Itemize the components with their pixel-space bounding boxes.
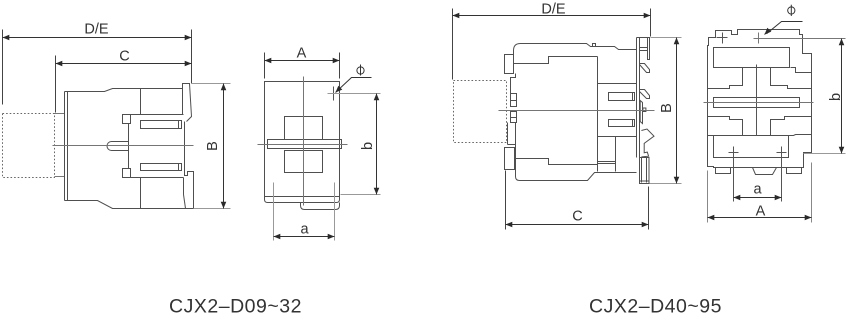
- dim C extension right: [648, 187, 650, 230]
- back plate double vertical: [637, 38, 640, 158]
- vertical center line: [756, 65, 758, 136]
- dim line D/E: [453, 15, 651, 17]
- top hole cross right + b top extension: [754, 33, 846, 44]
- terminal block top edge: [131, 114, 184, 116]
- lower terminal slot: [141, 164, 182, 171]
- upper inner square: [285, 117, 323, 140]
- middle band: [268, 140, 342, 149]
- dim line C: [506, 224, 649, 226]
- dim b extension top / hole tick: [328, 93, 381, 95]
- dim A extension right: [811, 163, 813, 223]
- bottom pad right: [787, 168, 802, 174]
- internal vertical lower: [140, 178, 142, 209]
- clip bottom inner lines: [640, 158, 650, 183]
- upper left staircase: [708, 68, 743, 89]
- dotted accessory module rectangle: [454, 81, 507, 143]
- upper right staircase: [771, 68, 812, 89]
- dim a extension left: [273, 183, 275, 241]
- upper slot divider: [178, 121, 180, 129]
- svg-text:A: A: [756, 204, 766, 220]
- outer body rectangle: [265, 82, 340, 203]
- top bump: [593, 44, 596, 47]
- DIN clip crossbar: [640, 48, 648, 51]
- svg-text:B: B: [659, 103, 675, 113]
- hook 1: [640, 64, 650, 73]
- slot 1 divider: [632, 93, 634, 101]
- top cap block: [505, 55, 514, 74]
- tick top dotted-to-body: [55, 113, 65, 115]
- inner bottom line: [265, 196, 340, 198]
- right edge mid: [184, 122, 186, 172]
- dim C extension left: [505, 171, 507, 230]
- top band rectangle: [714, 48, 790, 68]
- svg-text:b: b: [828, 93, 844, 101]
- terminal slot 1: [609, 93, 635, 101]
- rect B midline: [511, 100, 517, 102]
- DIN clip bottom body: [640, 158, 650, 184]
- svg-text:D/E: D/E: [84, 22, 109, 38]
- rect C midline: [511, 117, 517, 119]
- dim b extension bottom: [341, 194, 381, 196]
- svg-text:a: a: [300, 222, 309, 238]
- dim D/E extension right: [650, 9, 652, 37]
- dim line b: [841, 39, 843, 154]
- dim line a: [734, 197, 782, 199]
- bottom pad left: [716, 168, 731, 174]
- terminal block top edge: [598, 83, 637, 85]
- lower right staircase: [771, 117, 812, 136]
- top hole cross left: [717, 33, 728, 44]
- dim line A: [708, 217, 812, 219]
- bottom right flange: [185, 172, 194, 209]
- center pin (bullet): [107, 142, 129, 151]
- terminal slot 2: [609, 120, 635, 127]
- center line horizontal: [499, 110, 655, 112]
- label phi: [788, 5, 795, 16]
- svg-text:a: a: [753, 182, 762, 198]
- DIN clip top bar: [648, 38, 650, 60]
- left mounting strip (double line): [65, 92, 68, 201]
- body bottom edge with chamfer: [65, 201, 194, 209]
- phi leader: [767, 22, 803, 34]
- svg-text:CJX2–D40~95: CJX2–D40~95: [589, 296, 722, 313]
- dim A extension left: [707, 171, 709, 223]
- tick bottom dotted-to-body: [55, 176, 65, 178]
- dim line b: [376, 94, 378, 195]
- back plate narrow leaf strip: [640, 101, 642, 124]
- bottom double lines: [598, 162, 616, 164]
- dim B extension bottom: [194, 208, 231, 210]
- dim line B: [676, 38, 678, 184]
- bottom trapezoid notch: [753, 168, 777, 175]
- upper clamp screw square: [123, 115, 131, 124]
- bottom inner vertical: [615, 137, 617, 172]
- hook 2: [640, 90, 650, 99]
- front bottom block D: [505, 148, 515, 170]
- terminal block mid line: [598, 136, 637, 138]
- phi leader: [337, 78, 372, 92]
- middle band rectangle: [714, 98, 800, 108]
- flange inner vertical: [183, 178, 185, 195]
- lower clamp screw square: [123, 169, 131, 178]
- top right flange: [183, 84, 192, 122]
- dim line A: [265, 60, 340, 62]
- inner top line with step: [514, 57, 598, 64]
- dim D/E + C extension right: [191, 30, 193, 84]
- lower left staircase: [708, 117, 743, 136]
- dim line B: [223, 84, 225, 209]
- svg-text:B: B: [205, 141, 221, 151]
- front face rect B: [511, 94, 517, 107]
- terminal block bottom edge: [131, 177, 184, 179]
- DIN clip big bottom hook: [641, 129, 654, 157]
- back plate center square: [643, 108, 646, 112]
- right ledge below top band: [791, 68, 812, 73]
- svg-text:D/E: D/E: [541, 2, 566, 18]
- internal vertical (coil housing front) upper: [140, 89, 142, 115]
- dim B extension top: [192, 83, 231, 85]
- lower slot divider: [178, 164, 180, 171]
- lower rectangle: [714, 136, 789, 158]
- lower section top line: [708, 135, 812, 136]
- hole cross vertical tick: [333, 87, 335, 101]
- dim A extension right: [339, 53, 341, 79]
- dim line C: [56, 63, 192, 65]
- front narrow rect: [508, 123, 516, 145]
- lower inner square: [285, 151, 323, 173]
- center line horizontal: [53, 145, 194, 147]
- back plate top edge: [637, 37, 650, 39]
- svg-text:CJX2–D09~32: CJX2–D09~32: [169, 296, 302, 313]
- bottom inner line with step: [516, 159, 598, 165]
- outer body outline: [708, 30, 812, 168]
- rounded top-left corner + top edge + bump: [514, 44, 637, 55]
- dim B extension top: [651, 37, 682, 39]
- vertical center line: [303, 77, 305, 206]
- front step below cap: [511, 74, 516, 94]
- svg-text:b: b: [360, 142, 376, 150]
- inter-square vertical: [128, 124, 130, 169]
- upper terminal slot: [141, 121, 182, 129]
- horizontal center line: [704, 102, 814, 104]
- slot 2 divider: [632, 120, 634, 127]
- dim B extension bottom: [650, 183, 682, 185]
- svg-text:A: A: [297, 46, 307, 62]
- bottom hole cross left: [729, 147, 739, 202]
- dim line a: [274, 236, 335, 238]
- dim C extension left: [55, 56, 57, 113]
- svg-text:C: C: [119, 49, 129, 65]
- dim D/E extension left: [2, 30, 4, 105]
- bottom tab: [301, 203, 340, 210]
- outer bottom outline: [516, 123, 637, 181]
- dim D/E extension left: [452, 9, 454, 80]
- front face rect C: [511, 112, 517, 123]
- body top edge with chamfer: [68, 89, 183, 92]
- label phi: [357, 65, 364, 76]
- dim b extension bottom: [804, 153, 846, 155]
- dim A extension left: [264, 53, 266, 79]
- dotted accessory module rectangle: [3, 114, 55, 178]
- dim a extension right: [334, 183, 336, 241]
- horizontal center line: [258, 144, 348, 146]
- svg-text:C: C: [572, 209, 582, 225]
- bottom hole cross right: [777, 147, 787, 202]
- right body vertical: [597, 57, 599, 172]
- flange inner slant: [184, 195, 186, 209]
- dim line D/E: [3, 37, 192, 39]
